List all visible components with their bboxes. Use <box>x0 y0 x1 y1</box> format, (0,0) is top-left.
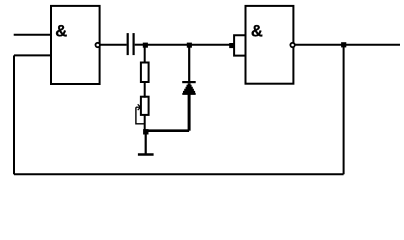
R2 wiper wire <box>136 107 145 124</box>
wire node D down to D1 cathode <box>188 45 190 82</box>
svg-text:&: & <box>251 22 263 40</box>
U2 input bracket <box>234 35 245 55</box>
feedback wire right vertical <box>343 45 345 175</box>
capacitor C1 left plate <box>127 33 129 55</box>
U2 output inverter bubble <box>290 43 294 47</box>
diode D1 triangle <box>182 83 195 95</box>
node B junction dot <box>143 129 148 134</box>
NAND gate U2 body <box>246 6 294 84</box>
R2 wiper arrow head <box>138 104 141 110</box>
U2 input junction dot <box>229 43 234 48</box>
wire U1 input B <box>14 54 51 56</box>
wire D1 anode down <box>188 95 191 131</box>
node D junction dot <box>187 43 192 48</box>
diode D1 cathode bar <box>182 81 196 83</box>
U1 output inverter bubble <box>96 43 100 47</box>
R2 wiper arrow shaft <box>136 106 141 108</box>
feedback wire bottom <box>14 173 344 175</box>
wire C1 to node A <box>135 44 146 46</box>
resistor R1 body <box>141 63 149 83</box>
wire node A down to R1 <box>144 45 146 63</box>
feedback wire left vertical <box>13 55 15 174</box>
node C junction dot <box>341 42 346 47</box>
capacitor C1 right plate <box>133 33 135 55</box>
wire U1 output to C1 <box>100 44 127 46</box>
wire node B to D1 anode <box>145 129 189 132</box>
wire node D to U2 input node <box>189 44 234 46</box>
wire U2 output <box>293 44 400 46</box>
wire R2 to node B <box>144 115 146 132</box>
wire node A to node D <box>145 44 189 46</box>
NAND gate U1 body <box>51 6 100 84</box>
svg-text:&: & <box>55 22 67 40</box>
wire U1 input A <box>14 34 51 36</box>
ground bar <box>138 153 154 155</box>
potentiometer R2 body <box>141 97 149 115</box>
node A junction dot <box>143 43 148 48</box>
wire node B to ground <box>145 132 147 154</box>
wire R1 to R2 <box>144 81 146 98</box>
